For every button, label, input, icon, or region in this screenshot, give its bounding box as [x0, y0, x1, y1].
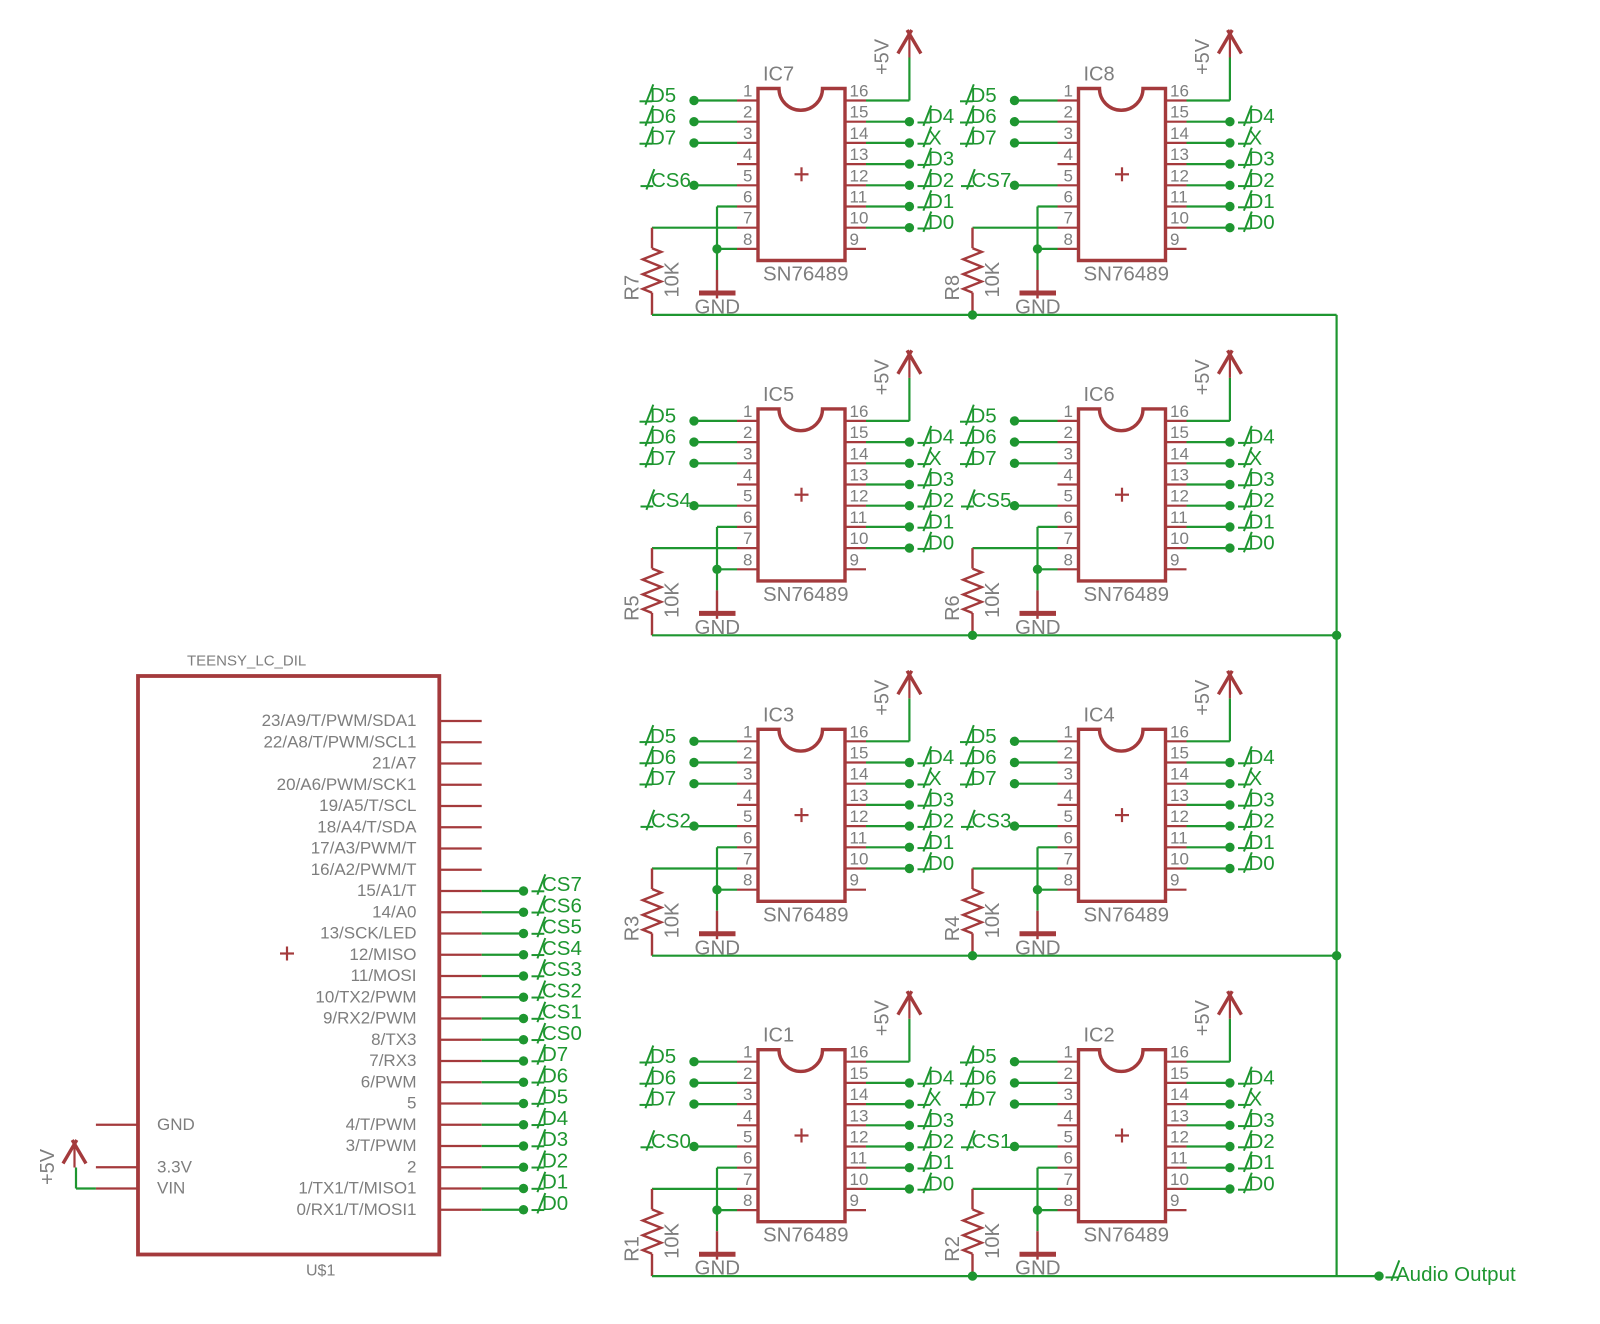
svg-text:CS7: CS7 [972, 169, 1012, 192]
svg-text:9/RX2/PWM: 9/RX2/PWM [323, 1009, 417, 1028]
svg-text:7: 7 [743, 850, 752, 869]
svg-text:R7: R7 [622, 275, 644, 301]
svg-text:CS3: CS3 [542, 958, 582, 981]
svg-text:3: 3 [743, 765, 752, 784]
svg-text:D4: D4 [928, 426, 954, 449]
svg-text:10K: 10K [662, 1222, 684, 1258]
svg-text:D0: D0 [542, 1192, 568, 1215]
svg-text:D7: D7 [650, 1088, 676, 1111]
svg-text:1: 1 [743, 82, 752, 101]
svg-text:9: 9 [850, 550, 859, 569]
svg-text:D5: D5 [971, 1045, 997, 1068]
svg-text:D1: D1 [928, 190, 954, 213]
svg-text:14: 14 [1170, 1085, 1189, 1104]
svg-text:D2: D2 [1249, 1130, 1275, 1153]
svg-text:D1: D1 [1249, 831, 1275, 854]
svg-text:11: 11 [1170, 828, 1188, 847]
svg-text:D7: D7 [971, 126, 997, 149]
svg-text:D7: D7 [971, 1088, 997, 1111]
svg-text:5: 5 [743, 1128, 752, 1147]
svg-text:8: 8 [743, 550, 752, 569]
svg-text:10K: 10K [982, 582, 1004, 618]
svg-text:R1: R1 [622, 1236, 644, 1262]
svg-text:9: 9 [1170, 550, 1179, 569]
svg-text:CS4: CS4 [651, 489, 691, 512]
svg-text:D4: D4 [928, 105, 954, 128]
svg-text:16: 16 [1170, 1043, 1189, 1062]
svg-text:+5V: +5V [37, 1148, 59, 1185]
svg-text:13: 13 [1170, 786, 1189, 805]
svg-text:+5V: +5V [1192, 38, 1214, 75]
svg-text:D1: D1 [928, 831, 954, 854]
svg-text:16: 16 [1170, 722, 1189, 741]
svg-text:2: 2 [743, 1064, 752, 1083]
svg-text:13: 13 [850, 1106, 869, 1125]
svg-text:8/TX3: 8/TX3 [371, 1030, 416, 1049]
svg-text:4: 4 [743, 145, 752, 164]
svg-text:D5: D5 [542, 1086, 568, 1109]
svg-text:4: 4 [743, 786, 752, 805]
svg-text:D1: D1 [1249, 190, 1275, 213]
svg-text:12: 12 [850, 807, 869, 826]
svg-text:3: 3 [1064, 765, 1073, 784]
svg-text:D0: D0 [1249, 211, 1275, 234]
svg-text:5: 5 [743, 487, 752, 506]
svg-text:CS5: CS5 [542, 916, 582, 939]
svg-text:VIN: VIN [157, 1179, 185, 1198]
svg-text:5: 5 [1064, 487, 1073, 506]
svg-text:8: 8 [743, 1191, 752, 1210]
svg-text:6: 6 [1064, 828, 1073, 847]
svg-text:12/MISO: 12/MISO [349, 945, 416, 964]
svg-text:D0: D0 [1249, 852, 1275, 875]
svg-text:3: 3 [743, 444, 752, 463]
svg-text:15: 15 [1170, 1064, 1189, 1083]
svg-text:+5V: +5V [1192, 359, 1214, 396]
svg-text:7: 7 [743, 209, 752, 228]
svg-text:7: 7 [1064, 850, 1073, 869]
svg-text:CS1: CS1 [542, 1001, 582, 1024]
svg-text:10K: 10K [982, 902, 1004, 938]
svg-text:D2: D2 [928, 810, 954, 833]
svg-text:2: 2 [743, 423, 752, 442]
svg-text:10K: 10K [662, 582, 684, 618]
svg-text:CS7: CS7 [542, 873, 582, 896]
svg-text:6: 6 [1064, 188, 1073, 207]
svg-text:15/A1/T: 15/A1/T [357, 881, 417, 900]
svg-text:D5: D5 [650, 1045, 676, 1068]
svg-text:D7: D7 [650, 767, 676, 790]
svg-text:D6: D6 [650, 426, 676, 449]
svg-text:7: 7 [743, 1170, 752, 1189]
svg-text:D5: D5 [971, 84, 997, 107]
svg-text:8: 8 [1064, 230, 1073, 249]
svg-text:17/A3/PWM/T: 17/A3/PWM/T [311, 839, 417, 858]
svg-text:8: 8 [743, 871, 752, 890]
svg-text:14: 14 [1170, 765, 1189, 784]
svg-text:2: 2 [1064, 423, 1073, 442]
svg-text:8: 8 [743, 230, 752, 249]
svg-text:3: 3 [743, 124, 752, 143]
svg-text:D6: D6 [650, 1066, 676, 1089]
svg-text:D0: D0 [928, 852, 954, 875]
svg-text:5: 5 [743, 807, 752, 826]
svg-text:3: 3 [1064, 1085, 1073, 1104]
svg-text:12: 12 [1170, 166, 1189, 185]
svg-text:TEENSY_LC_DIL: TEENSY_LC_DIL [187, 653, 306, 670]
svg-text:16: 16 [850, 82, 869, 101]
svg-text:D1: D1 [928, 510, 954, 533]
svg-text:10: 10 [850, 529, 869, 548]
svg-text:4: 4 [1064, 786, 1073, 805]
svg-text:1: 1 [1064, 1043, 1073, 1062]
svg-text:0/RX1/T/MOSI1: 0/RX1/T/MOSI1 [297, 1200, 417, 1219]
svg-text:R4: R4 [942, 916, 964, 942]
svg-text:U$1: U$1 [306, 1263, 335, 1280]
svg-text:+5V: +5V [1192, 999, 1214, 1036]
svg-text:D6: D6 [971, 105, 997, 128]
svg-text:16: 16 [1170, 402, 1189, 421]
svg-text:9: 9 [850, 871, 859, 890]
svg-text:D0: D0 [928, 532, 954, 555]
svg-text:7: 7 [1064, 209, 1073, 228]
svg-text:6/PWM: 6/PWM [361, 1072, 417, 1091]
svg-text:GND: GND [157, 1115, 195, 1134]
svg-text:CS2: CS2 [651, 810, 691, 833]
svg-text:14: 14 [850, 444, 869, 463]
svg-text:8: 8 [1064, 1191, 1073, 1210]
svg-text:D4: D4 [1249, 746, 1275, 769]
svg-text:D6: D6 [542, 1064, 568, 1087]
svg-text:D4: D4 [928, 1066, 954, 1089]
svg-text:D4: D4 [1249, 426, 1275, 449]
svg-text:10: 10 [1170, 1170, 1189, 1189]
svg-text:15: 15 [1170, 103, 1189, 122]
svg-text:D6: D6 [971, 746, 997, 769]
svg-text:IC6: IC6 [1084, 384, 1115, 406]
svg-text:CS2: CS2 [542, 979, 582, 1002]
svg-text:SN76489: SN76489 [763, 903, 848, 926]
svg-text:D7: D7 [650, 447, 676, 470]
svg-text:15: 15 [850, 1064, 869, 1083]
svg-text:15: 15 [850, 744, 869, 763]
svg-text:D5: D5 [650, 404, 676, 427]
svg-text:CS0: CS0 [542, 1022, 582, 1045]
svg-text:13: 13 [1170, 1106, 1189, 1125]
svg-text:4: 4 [1064, 466, 1073, 485]
svg-text:7: 7 [1064, 529, 1073, 548]
svg-text:14: 14 [850, 1085, 869, 1104]
svg-text:2: 2 [1064, 1064, 1073, 1083]
svg-text:9: 9 [850, 1191, 859, 1210]
svg-text:5: 5 [1064, 807, 1073, 826]
svg-text:10/TX2/PWM: 10/TX2/PWM [315, 987, 416, 1006]
svg-text:4: 4 [1064, 1106, 1073, 1125]
svg-text:10K: 10K [982, 261, 1004, 297]
svg-text:D4: D4 [542, 1107, 568, 1130]
svg-text:D1: D1 [542, 1171, 568, 1194]
svg-text:11: 11 [850, 828, 868, 847]
svg-text:22/A8/T/PWM/SCL1: 22/A8/T/PWM/SCL1 [263, 732, 416, 751]
svg-text:3/T/PWM: 3/T/PWM [346, 1136, 417, 1155]
svg-text:9: 9 [850, 230, 859, 249]
svg-text:SN76489: SN76489 [763, 263, 848, 286]
svg-text:15: 15 [1170, 744, 1189, 763]
svg-text:16: 16 [850, 722, 869, 741]
svg-text:19/A5/T/SCL: 19/A5/T/SCL [319, 796, 416, 815]
svg-text:IC4: IC4 [1084, 704, 1115, 726]
svg-text:D7: D7 [971, 767, 997, 790]
svg-text:D7: D7 [650, 126, 676, 149]
svg-text:3: 3 [1064, 124, 1073, 143]
svg-text:CS1: CS1 [972, 1130, 1012, 1153]
svg-text:D3: D3 [928, 148, 954, 171]
svg-text:D0: D0 [1249, 1172, 1275, 1195]
svg-text:1/TX1/T/MISO1: 1/TX1/T/MISO1 [298, 1179, 416, 1198]
svg-text:+5V: +5V [872, 999, 894, 1036]
svg-text:D3: D3 [928, 1109, 954, 1132]
svg-text:D1: D1 [1249, 1151, 1275, 1174]
svg-text:D2: D2 [928, 1130, 954, 1153]
svg-text:IC8: IC8 [1084, 64, 1115, 86]
svg-text:SN76489: SN76489 [763, 1224, 848, 1247]
svg-text:D2: D2 [1249, 169, 1275, 192]
svg-text:13: 13 [1170, 145, 1189, 164]
svg-text:R6: R6 [942, 595, 964, 621]
svg-text:3.3V: 3.3V [157, 1157, 193, 1176]
svg-text:11/MOSI: 11/MOSI [351, 966, 417, 985]
svg-text:D3: D3 [928, 468, 954, 491]
svg-text:13: 13 [1170, 466, 1189, 485]
svg-text:D5: D5 [650, 725, 676, 748]
svg-text:D4: D4 [928, 746, 954, 769]
svg-text:12: 12 [1170, 807, 1189, 826]
svg-text:D7: D7 [542, 1043, 568, 1066]
svg-text:11: 11 [1170, 1149, 1188, 1168]
svg-text:D1: D1 [1249, 510, 1275, 533]
svg-text:14: 14 [1170, 124, 1189, 143]
svg-text:D6: D6 [971, 1066, 997, 1089]
svg-text:+5V: +5V [1192, 679, 1214, 716]
svg-text:10K: 10K [662, 261, 684, 297]
svg-text:10: 10 [850, 209, 869, 228]
svg-text:12: 12 [850, 487, 869, 506]
svg-text:1: 1 [1064, 722, 1073, 741]
svg-text:D2: D2 [1249, 810, 1275, 833]
svg-text:R5: R5 [622, 595, 644, 621]
svg-text:11: 11 [1170, 508, 1188, 527]
svg-text:6: 6 [743, 1149, 752, 1168]
svg-text:IC3: IC3 [763, 704, 794, 726]
svg-text:12: 12 [850, 166, 869, 185]
svg-text:D0: D0 [928, 1172, 954, 1195]
svg-text:7: 7 [743, 529, 752, 548]
svg-text:12: 12 [850, 1128, 869, 1147]
svg-text:1: 1 [743, 1043, 752, 1062]
svg-text:CS6: CS6 [542, 894, 582, 917]
svg-text:14/A0: 14/A0 [372, 902, 416, 921]
svg-text:6: 6 [743, 508, 752, 527]
svg-text:15: 15 [850, 103, 869, 122]
svg-text:4: 4 [743, 466, 752, 485]
svg-text:14: 14 [850, 124, 869, 143]
svg-text:R2: R2 [942, 1236, 964, 1262]
svg-text:CS4: CS4 [542, 937, 582, 960]
svg-text:D3: D3 [1249, 148, 1275, 171]
svg-text:D4: D4 [1249, 105, 1275, 128]
svg-text:16: 16 [850, 1043, 869, 1062]
svg-text:+5V: +5V [872, 359, 894, 396]
svg-text:10K: 10K [662, 902, 684, 938]
svg-text:2: 2 [1064, 103, 1073, 122]
svg-text:11: 11 [850, 1149, 868, 1168]
svg-text:13: 13 [850, 145, 869, 164]
svg-text:D3: D3 [1249, 468, 1275, 491]
svg-text:10K: 10K [982, 1222, 1004, 1258]
svg-text:SN76489: SN76489 [1084, 583, 1169, 606]
svg-text:9: 9 [1170, 871, 1179, 890]
svg-text:1: 1 [1064, 82, 1073, 101]
svg-text:SN76489: SN76489 [1084, 903, 1169, 926]
svg-text:D5: D5 [971, 404, 997, 427]
svg-text:CS3: CS3 [972, 810, 1012, 833]
svg-text:10: 10 [1170, 209, 1189, 228]
svg-text:D2: D2 [928, 169, 954, 192]
svg-text:5: 5 [407, 1094, 416, 1113]
svg-text:D4: D4 [1249, 1066, 1275, 1089]
svg-text:CS5: CS5 [972, 489, 1012, 512]
svg-text:IC7: IC7 [763, 64, 794, 86]
svg-text:SN76489: SN76489 [763, 583, 848, 606]
svg-text:SN76489: SN76489 [1084, 1224, 1169, 1247]
svg-text:6: 6 [1064, 508, 1073, 527]
svg-text:1: 1 [743, 402, 752, 421]
svg-text:2: 2 [1064, 744, 1073, 763]
svg-text:10: 10 [1170, 529, 1189, 548]
svg-text:D3: D3 [542, 1128, 568, 1151]
svg-text:D3: D3 [928, 788, 954, 811]
svg-text:CS6: CS6 [651, 169, 691, 192]
svg-text:14: 14 [850, 765, 869, 784]
svg-text:D0: D0 [928, 211, 954, 234]
svg-text:D0: D0 [1249, 532, 1275, 555]
svg-text:13/SCK/LED: 13/SCK/LED [320, 924, 416, 943]
svg-text:20/A6/PWM/SCK1: 20/A6/PWM/SCK1 [277, 775, 417, 794]
svg-text:D6: D6 [650, 746, 676, 769]
svg-text:15: 15 [850, 423, 869, 442]
svg-text:16: 16 [1170, 82, 1189, 101]
svg-text:8: 8 [1064, 871, 1073, 890]
svg-text:D3: D3 [1249, 1109, 1275, 1132]
svg-text:D3: D3 [1249, 788, 1275, 811]
svg-text:10: 10 [1170, 850, 1189, 869]
svg-text:11: 11 [1170, 188, 1188, 207]
svg-text:R8: R8 [942, 275, 964, 301]
svg-text:18/A4/T/SDA: 18/A4/T/SDA [317, 817, 417, 836]
svg-text:8: 8 [1064, 550, 1073, 569]
svg-text:2: 2 [743, 744, 752, 763]
svg-text:2: 2 [407, 1157, 416, 1176]
svg-text:D5: D5 [650, 84, 676, 107]
svg-text:D5: D5 [971, 725, 997, 748]
svg-text:2: 2 [743, 103, 752, 122]
svg-text:R3: R3 [622, 916, 644, 942]
svg-text:+5V: +5V [872, 679, 894, 716]
svg-text:D2: D2 [928, 489, 954, 512]
svg-text:4: 4 [743, 1106, 752, 1125]
svg-text:21/A7: 21/A7 [372, 754, 416, 773]
svg-text:D2: D2 [1249, 489, 1275, 512]
svg-text:D6: D6 [971, 426, 997, 449]
svg-text:D6: D6 [650, 105, 676, 128]
svg-text:1: 1 [1064, 402, 1073, 421]
svg-text:+5V: +5V [872, 38, 894, 75]
svg-text:1: 1 [743, 722, 752, 741]
svg-text:12: 12 [1170, 1128, 1189, 1147]
svg-text:7: 7 [1064, 1170, 1073, 1189]
svg-text:6: 6 [743, 188, 752, 207]
svg-text:5: 5 [1064, 1128, 1073, 1147]
svg-text:9: 9 [1170, 1191, 1179, 1210]
svg-text:Audio Output: Audio Output [1396, 1263, 1516, 1286]
svg-text:SN76489: SN76489 [1084, 263, 1169, 286]
svg-text:16/A2/PWM/T: 16/A2/PWM/T [311, 860, 417, 879]
svg-text:IC1: IC1 [763, 1025, 794, 1047]
svg-text:10: 10 [850, 1170, 869, 1189]
svg-text:13: 13 [850, 786, 869, 805]
svg-text:D2: D2 [542, 1149, 568, 1172]
svg-text:6: 6 [1064, 1149, 1073, 1168]
svg-text:23/A9/T/PWM/SDA1: 23/A9/T/PWM/SDA1 [262, 711, 417, 730]
svg-text:15: 15 [1170, 423, 1189, 442]
svg-text:IC5: IC5 [763, 384, 794, 406]
svg-text:3: 3 [743, 1085, 752, 1104]
svg-text:14: 14 [1170, 444, 1189, 463]
svg-text:9: 9 [1170, 230, 1179, 249]
svg-text:3: 3 [1064, 444, 1073, 463]
svg-text:4/T/PWM: 4/T/PWM [346, 1115, 417, 1134]
svg-text:4: 4 [1064, 145, 1073, 164]
svg-text:11: 11 [850, 188, 868, 207]
svg-text:6: 6 [743, 828, 752, 847]
svg-text:5: 5 [1064, 166, 1073, 185]
svg-text:12: 12 [1170, 487, 1189, 506]
svg-text:CS0: CS0 [651, 1130, 691, 1153]
svg-text:13: 13 [850, 466, 869, 485]
svg-text:5: 5 [743, 166, 752, 185]
svg-text:11: 11 [850, 508, 868, 527]
svg-text:16: 16 [850, 402, 869, 421]
svg-text:10: 10 [850, 850, 869, 869]
svg-text:D7: D7 [971, 447, 997, 470]
svg-text:7/RX3: 7/RX3 [369, 1051, 416, 1070]
svg-text:D1: D1 [928, 1151, 954, 1174]
svg-text:IC2: IC2 [1084, 1025, 1115, 1047]
